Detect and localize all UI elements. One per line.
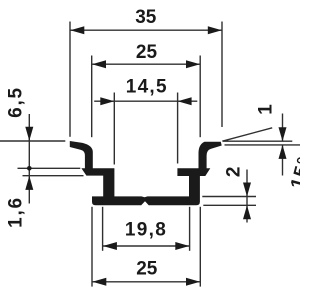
extension line lip top left (6,5 upper ref) — [0, 140, 65, 142]
arrow 25 bottom left — [92, 278, 106, 286]
arrow 14,5 right (outside, pointing left) — [178, 97, 192, 105]
extension line lip tip top right (1 upper ref) — [223, 140, 292, 142]
dimension line 1 vertical upper — [282, 114, 284, 142]
reference dot 6,5 / 1,6 — [27, 166, 32, 171]
dimension line 14,5 — [94, 100, 197, 102]
arrow 1 up — [279, 145, 287, 159]
arrow 25 left — [92, 60, 106, 68]
dimension line 25 — [92, 63, 201, 65]
svg-text:25: 25 — [136, 42, 158, 63]
extension line 35 left — [69, 22, 71, 137]
svg-text:25: 25 — [136, 259, 158, 280]
svg-text:15°: 15° — [287, 154, 300, 192]
extension line 25 bottom left — [91, 207, 93, 287]
dimension line 35 — [70, 29, 222, 31]
arrow 2 down — [243, 183, 251, 197]
arrow 1,6 up — [25, 176, 33, 190]
svg-text:19,8: 19,8 — [125, 220, 167, 241]
extension line 25 bottom right — [199, 207, 201, 287]
arrow 25 right — [186, 60, 200, 68]
extension line 25 left — [91, 56, 93, 138]
15 degree reference diagonal — [222, 128, 272, 141]
arrow 14,5 left (outside, pointing right) — [100, 97, 114, 105]
svg-text:35: 35 — [135, 7, 157, 28]
extension line lip tip bottom right (1 lower ref) — [225, 144, 301, 146]
extension line 25 right — [199, 56, 201, 138]
svg-text:1,6: 1,6 — [6, 196, 27, 228]
extension line floor top right (2 upper ref) — [202, 196, 256, 198]
dimension line 6,5 / 1,6 vertical — [28, 114, 30, 204]
svg-text:6,5: 6,5 — [6, 86, 27, 118]
arrow 2 up — [243, 205, 251, 219]
arrow 19,8 left — [103, 242, 117, 250]
dimension line 2 vertical — [246, 170, 248, 223]
extension line step top ledge (6,5 lower / 1,6 upper ref) — [18, 167, 81, 169]
extension line 35 right — [221, 22, 223, 128]
arrow 19,8 right — [175, 242, 189, 250]
extension line 19,8 right — [189, 207, 191, 251]
svg-text:2: 2 — [224, 167, 245, 178]
dimension line 25 bottom — [92, 281, 200, 283]
dimension line 1 vertical lower — [282, 145, 284, 176]
extension line step bottom (1,6 lower ref) — [23, 175, 84, 177]
extension line floor bottom right (2 lower ref) — [203, 204, 256, 206]
extension line 14,5 right — [177, 93, 179, 164]
extension line 14,5 left — [113, 93, 115, 165]
arrow 25 bottom right — [186, 278, 200, 286]
arrow 1 down — [279, 127, 287, 141]
arrow 35 right — [208, 26, 222, 34]
svg-text:1: 1 — [256, 104, 277, 115]
arrow 35 left — [70, 26, 84, 34]
rail profile NS35 cross-section — [70, 141, 222, 205]
arrow 6,5 down — [25, 127, 33, 141]
svg-text:14,5: 14,5 — [126, 77, 168, 98]
dimension line 19,8 — [103, 245, 190, 247]
extension line 19,8 left — [102, 207, 104, 251]
